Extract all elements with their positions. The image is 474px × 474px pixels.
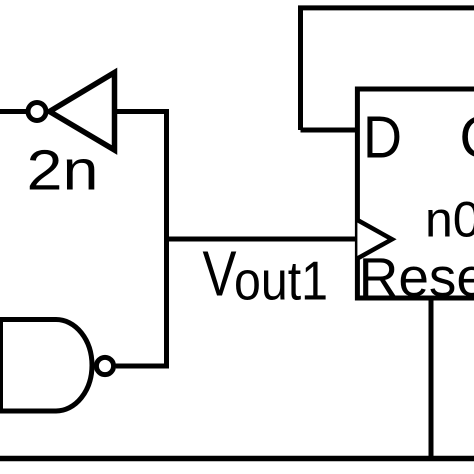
svg-text:n0: n0 [425,192,474,248]
nand gate U2 [1,320,93,412]
svg-text:Reset: Reset [359,246,474,308]
wire nand output [116,364,166,369]
svg-text:2n: 2n [27,139,99,203]
wire D input [301,128,358,133]
inverter 2n triangle [50,73,115,151]
wire vertical bus node Vout1 [164,109,169,369]
svg-text:Q: Q [460,104,474,170]
svg-text:D: D [363,104,402,170]
clock input triangle [357,220,392,259]
wire Vout1 to flip-flop clock [167,237,358,242]
label Vout1 [203,237,329,311]
wire inverter output to bus [117,109,169,114]
wire feedback top horizontal [298,5,474,10]
inverter output bubble [28,103,46,121]
wire inverter input [0,109,28,114]
nand output bubble [96,357,113,374]
d flip-flop U1 box [357,89,474,298]
wire bottom rail [0,456,474,462]
svg-text:out1: out1 [234,250,328,312]
svg-text:V: V [203,237,237,309]
wire reset vertical [429,298,434,458]
wire feedback vertical Q to D [298,8,303,130]
